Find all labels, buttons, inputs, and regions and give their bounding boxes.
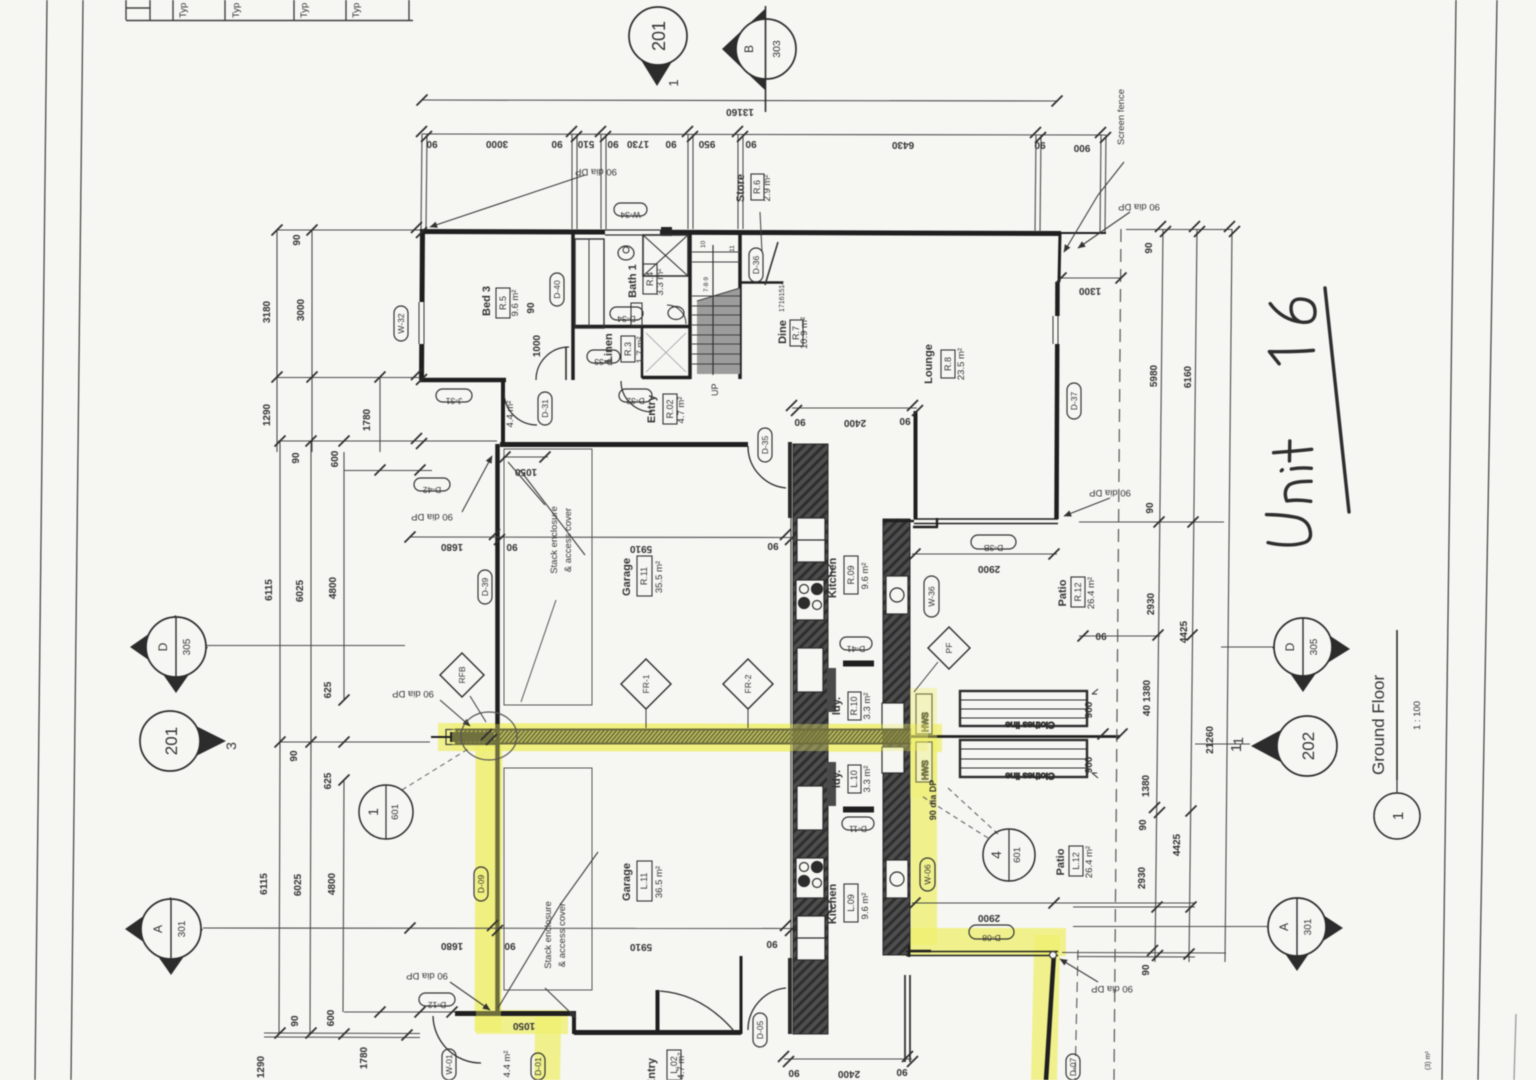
- svg-text:90: 90: [292, 234, 303, 246]
- svg-text:Screen fence: Screen fence: [1116, 89, 1127, 145]
- svg-text:900: 900: [1084, 756, 1095, 773]
- svg-text:4425: 4425: [1172, 833, 1183, 856]
- svg-text:6025: 6025: [295, 579, 306, 602]
- svg-text:Stack enclosure: Stack enclosure: [543, 901, 554, 969]
- svg-text:90: 90: [551, 138, 563, 149]
- svg-text:1: 1: [666, 79, 681, 86]
- svg-text:Stack enclosure: Stack enclosure: [549, 506, 560, 574]
- svg-text:201: 201: [649, 21, 669, 51]
- svg-text:3.3 m²: 3.3 m²: [862, 693, 873, 720]
- svg-text:301: 301: [1303, 918, 1314, 935]
- svg-text:1290: 1290: [262, 403, 273, 426]
- svg-text:90: 90: [506, 541, 518, 552]
- svg-text:625: 625: [323, 772, 334, 789]
- svg-text:W-32: W-32: [396, 313, 406, 333]
- svg-text:1380: 1380: [1141, 774, 1152, 797]
- svg-text:90: 90: [1095, 630, 1107, 641]
- svg-text:6115: 6115: [259, 873, 270, 895]
- svg-text:601: 601: [390, 804, 401, 820]
- svg-text:1300: 1300: [1078, 285, 1101, 296]
- svg-text:4425: 4425: [1179, 620, 1190, 643]
- svg-text:3000: 3000: [485, 138, 508, 149]
- svg-text:Entry: Entry: [646, 1057, 658, 1080]
- svg-text:5980: 5980: [1149, 364, 1160, 387]
- svg-text:5910: 5910: [629, 941, 652, 952]
- svg-text:90 dia DP: 90 dia DP: [392, 688, 434, 699]
- svg-text:& access cover: & access cover: [557, 903, 568, 967]
- svg-text:90: 90: [745, 138, 757, 149]
- svg-text:90: 90: [291, 452, 302, 464]
- svg-text:90: 90: [788, 1067, 800, 1078]
- svg-text:90: 90: [665, 138, 677, 149]
- svg-text:W-01: W-01: [444, 1054, 454, 1074]
- svg-text:9.6 m²: 9.6 m²: [510, 290, 521, 317]
- svg-text:21260: 21260: [1205, 726, 1216, 754]
- svg-text:D-08: D-08: [982, 933, 1001, 943]
- svg-text:A: A: [1277, 923, 1291, 931]
- svg-text:13160: 13160: [726, 106, 754, 117]
- svg-text:D-42: D-42: [423, 485, 442, 495]
- svg-text:2930: 2930: [1137, 866, 1148, 889]
- svg-text:W-06: W-06: [923, 864, 933, 884]
- svg-text:36.5 m²: 36.5 m²: [654, 866, 665, 898]
- svg-text:Clothes line: Clothes line: [1005, 719, 1055, 730]
- svg-text:Clothes line: Clothes line: [1005, 770, 1055, 781]
- svg-text:1000: 1000: [532, 334, 543, 357]
- svg-text:1: 1: [1230, 737, 1246, 745]
- svg-text:90: 90: [896, 1066, 908, 1077]
- svg-text:Garage: Garage: [621, 558, 633, 596]
- svg-text:1680: 1680: [440, 541, 463, 552]
- svg-text:L.10: L.10: [849, 770, 859, 788]
- svg-text:D: D: [156, 642, 170, 651]
- svg-text:R.5: R.5: [498, 296, 508, 310]
- svg-text:6430: 6430: [891, 139, 914, 150]
- svg-text:4800: 4800: [327, 872, 338, 895]
- svg-text:Typ: Typ: [178, 3, 189, 18]
- svg-text:B: B: [742, 45, 756, 53]
- svg-text:D-39: D-39: [480, 578, 490, 597]
- svg-text:R.11: R.11: [639, 567, 649, 585]
- svg-text:W-34: W-34: [620, 210, 640, 220]
- svg-text:W-36: W-36: [927, 586, 937, 606]
- svg-text:Bed 3: Bed 3: [481, 286, 493, 316]
- svg-text:90 dia DP: 90 dia DP: [575, 166, 617, 177]
- svg-text:D-40: D-40: [552, 280, 562, 299]
- svg-text:3: 3: [223, 742, 239, 750]
- svg-text:R.02: R.02: [665, 399, 675, 418]
- svg-text:90: 90: [504, 940, 516, 951]
- svg-text:1730: 1730: [626, 138, 649, 149]
- svg-text:90 dia DP: 90 dia DP: [928, 780, 938, 821]
- svg-text:625: 625: [323, 681, 334, 698]
- svg-text:1 : 100: 1 : 100: [1412, 701, 1423, 730]
- svg-text:4.4 m²: 4.4 m²: [505, 401, 516, 428]
- svg-text:L.11: L.11: [639, 873, 649, 890]
- svg-text:601: 601: [1012, 847, 1023, 863]
- svg-text:R.7: R.7: [791, 326, 801, 340]
- svg-text:90 dia DP: 90 dia DP: [1091, 983, 1133, 994]
- svg-text:17161514: 17161514: [779, 281, 786, 312]
- svg-text:R.09: R.09: [846, 565, 856, 584]
- svg-text:90: 90: [1145, 502, 1156, 514]
- svg-text:900: 900: [1084, 701, 1095, 718]
- svg-text:PF: PF: [944, 643, 954, 654]
- svg-text:Ground Floor: Ground Floor: [1369, 675, 1388, 775]
- svg-text:R.6: R.6: [752, 180, 762, 194]
- svg-text:1290: 1290: [256, 1055, 267, 1078]
- svg-text:90: 90: [289, 750, 300, 762]
- svg-text:26.4 m²: 26.4 m²: [1086, 577, 1097, 609]
- svg-text:600: 600: [330, 450, 341, 467]
- svg-text:7·8·9: 7·8·9: [703, 276, 710, 292]
- svg-text:202: 202: [1299, 732, 1318, 760]
- svg-text:Typ: Typ: [231, 3, 242, 18]
- svg-text:4.7 m²: 4.7 m²: [676, 397, 687, 424]
- svg-text:Typ: Typ: [351, 3, 362, 18]
- svg-text:6025: 6025: [293, 873, 304, 896]
- svg-text:D-35: D-35: [760, 436, 770, 455]
- svg-text:90: 90: [899, 415, 911, 426]
- svg-text:90: 90: [526, 302, 537, 314]
- svg-text:40 1380: 40 1380: [1142, 679, 1153, 716]
- svg-text:FR-2: FR-2: [743, 674, 753, 693]
- svg-text:D-11: D-11: [849, 824, 867, 834]
- svg-text:1680: 1680: [440, 940, 463, 951]
- svg-text:D-3B: D-3B: [983, 543, 1003, 553]
- svg-text:90: 90: [1138, 819, 1149, 831]
- svg-text:90 dia DP: 90 dia DP: [1118, 201, 1160, 212]
- svg-text:2930: 2930: [1146, 592, 1157, 615]
- svg-text:303: 303: [771, 40, 783, 58]
- svg-text:600: 600: [326, 1009, 337, 1026]
- svg-text:Patio: Patio: [1057, 579, 1069, 606]
- svg-text:1: 1: [365, 808, 381, 816]
- svg-text:R.12: R.12: [1073, 582, 1083, 601]
- svg-text:L.02: L.02: [669, 1056, 679, 1074]
- svg-text:2400: 2400: [837, 1068, 860, 1079]
- svg-text:Linen: Linen: [603, 333, 615, 363]
- svg-text:1050: 1050: [512, 1020, 535, 1031]
- svg-text:L.09: L.09: [846, 894, 856, 912]
- svg-text:Bath 1: Bath 1: [627, 264, 639, 298]
- svg-text:A: A: [151, 925, 165, 933]
- svg-text:FR-1: FR-1: [641, 674, 651, 693]
- svg-text:90: 90: [766, 938, 778, 949]
- svg-text:2900: 2900: [977, 563, 1000, 574]
- svg-text:90 dia DP: 90 dia DP: [411, 511, 453, 522]
- svg-text:35.5 m²: 35.5 m²: [654, 561, 665, 593]
- svg-text:3000: 3000: [296, 298, 307, 321]
- svg-text:90: 90: [426, 138, 438, 149]
- svg-text:90 dia DP: 90 dia DP: [406, 970, 448, 981]
- svg-text:D-41: D-41: [847, 644, 866, 654]
- svg-text:9.6 m²: 9.6 m²: [860, 563, 871, 590]
- svg-text:R.3: R.3: [623, 342, 633, 356]
- svg-text:ldy.: ldy.: [831, 697, 843, 715]
- svg-text:1050: 1050: [514, 466, 537, 477]
- svg-text:Typ: Typ: [299, 3, 310, 18]
- svg-text:Kitchen: Kitchen: [827, 558, 839, 599]
- svg-text:Dine: Dine: [777, 320, 789, 344]
- svg-text:4800: 4800: [328, 576, 339, 599]
- svg-text:D-32: D-32: [626, 396, 645, 406]
- svg-text:& access cover: & access cover: [563, 508, 574, 572]
- svg-text:1.7 m²: 1.7 m²: [635, 337, 646, 364]
- svg-text:D-12: D-12: [428, 1000, 447, 1010]
- svg-text:90 dia DP: 90 dia DP: [1089, 487, 1131, 498]
- svg-text:RFB: RFB: [457, 666, 467, 683]
- svg-text:10: 10: [700, 240, 707, 248]
- svg-text:90: 90: [1141, 964, 1152, 976]
- svg-text:3.3 m²: 3.3 m²: [862, 766, 873, 793]
- svg-text:2400: 2400: [843, 417, 866, 428]
- svg-text:4.4 m²: 4.4 m²: [502, 1051, 513, 1078]
- svg-text:D-36: D-36: [751, 256, 761, 275]
- svg-text:UP: UP: [710, 383, 720, 396]
- svg-text:J-31: J-31: [445, 396, 462, 406]
- svg-text:2900: 2900: [977, 912, 1000, 923]
- svg-text:Store: Store: [735, 174, 747, 202]
- svg-text:90: 90: [794, 416, 806, 427]
- svg-text:1780: 1780: [362, 408, 373, 431]
- svg-text:Lounge: Lounge: [923, 344, 935, 384]
- svg-text:L.12: L.12: [1071, 852, 1081, 870]
- svg-text:90: 90: [1144, 242, 1155, 254]
- svg-text:6160: 6160: [1183, 365, 1194, 388]
- svg-text:305: 305: [1309, 638, 1320, 655]
- svg-text:D-31: D-31: [540, 399, 550, 418]
- svg-text:1780: 1780: [359, 1046, 370, 1069]
- svg-text:26.4 m²: 26.4 m²: [1084, 846, 1095, 878]
- svg-text:Entry: Entry: [646, 394, 658, 423]
- svg-text:950: 950: [698, 138, 715, 149]
- svg-text:201: 201: [162, 727, 181, 755]
- svg-text:D-05: D-05: [755, 1021, 765, 1040]
- svg-text:Garage: Garage: [621, 863, 633, 901]
- svg-text:D-07: D-07: [1068, 1058, 1078, 1077]
- svg-text:9.6 m²: 9.6 m²: [860, 893, 871, 920]
- svg-text:90: 90: [1034, 139, 1046, 150]
- svg-text:R.8: R.8: [943, 357, 953, 371]
- svg-text:510: 510: [577, 138, 594, 149]
- svg-text:4: 4: [988, 851, 1004, 859]
- svg-text:R.10: R.10: [849, 696, 859, 715]
- svg-text:1: 1: [1390, 812, 1407, 820]
- svg-text:23.5 m²: 23.5 m²: [956, 348, 967, 380]
- svg-text:ldy.: ldy.: [831, 770, 843, 788]
- svg-text:Patio: Patio: [1055, 848, 1067, 875]
- svg-text:Kitchen: Kitchen: [827, 884, 839, 925]
- svg-text:90: 90: [290, 1015, 301, 1027]
- svg-text:D-09: D-09: [476, 875, 486, 894]
- svg-text:D-37: D-37: [1069, 392, 1079, 411]
- svg-text:5910: 5910: [629, 543, 652, 554]
- svg-text:90: 90: [767, 540, 779, 551]
- svg-text:301: 301: [177, 920, 188, 937]
- svg-text:3180: 3180: [262, 300, 273, 323]
- svg-text:(3) m²: (3) m²: [1425, 1051, 1432, 1070]
- svg-text:D-01: D-01: [533, 1057, 543, 1076]
- svg-text:D-34: D-34: [617, 314, 636, 324]
- svg-text:D: D: [1283, 642, 1297, 651]
- svg-text:90: 90: [607, 138, 619, 149]
- svg-text:6115: 6115: [264, 579, 275, 601]
- svg-text:900: 900: [1073, 142, 1090, 153]
- svg-text:R.4: R.4: [645, 272, 655, 286]
- svg-text:11: 11: [729, 245, 736, 252]
- svg-text:305: 305: [182, 638, 193, 655]
